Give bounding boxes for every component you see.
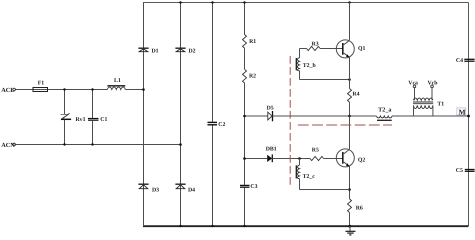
svg-text:DB1: DB1 (266, 146, 277, 152)
terminal Vcb (431, 85, 434, 88)
svg-text:D5: D5 (267, 106, 274, 112)
node junction top rail D2 (179, 1, 181, 3)
inductor T2_c winding (297, 165, 299, 179)
transistor Q1 (336, 40, 354, 58)
wire Q1 emitter down (349, 57, 351, 88)
wire T2_b to Q1 emitter (300, 79, 350, 81)
node label M highlight box (457, 108, 466, 115)
terminal ACN (13, 143, 16, 146)
inductor T2_a winding (377, 116, 393, 118)
wire R3 from T2_b top (300, 48, 307, 50)
transformer T1 secondary left lead (413, 105, 415, 116)
diode DB1 (267, 155, 272, 162)
svg-text:M: M (459, 107, 466, 116)
svg-text:R3: R3 (312, 41, 319, 47)
wire DB1 branch (245, 158, 268, 160)
svg-text:D4: D4 (188, 187, 195, 193)
inductor L1 core bar (107, 85, 125, 87)
capacitor C2 (208, 121, 218, 123)
capacitor C5 (465, 169, 475, 171)
wire R4 to mid rail (349, 102, 351, 116)
svg-text:L1: L1 (114, 78, 121, 84)
svg-text:ACN: ACN (1, 142, 15, 149)
resistor R2 (243, 69, 247, 83)
wire R6 to bottom rail (349, 213, 351, 227)
capacitor C1 (88, 118, 99, 120)
wire R1 R2 branch (244, 3, 246, 35)
node junction bottom rail C2 (211, 225, 213, 227)
node junction Q2 emitter / T2_c (348, 188, 351, 191)
transformer T1 core lines (413, 101, 433, 103)
wire DB1 to R5 (272, 158, 310, 160)
resistor R3 (307, 47, 321, 51)
resistor R4 (348, 89, 352, 103)
diode D5 (268, 112, 272, 120)
svg-text:C3: C3 (250, 184, 257, 190)
transformer core red dashed vertical (289, 56, 291, 186)
transformer T1 primary winding (413, 98, 433, 100)
wire R5 to Q2 base (324, 158, 343, 160)
node junction D5 branch (243, 115, 246, 118)
wire R2 down to C3 and bottom (244, 83, 246, 185)
svg-text:R2: R2 (249, 73, 256, 79)
wire C1 branch top (92, 90, 94, 119)
node junction ACL-C1 (91, 88, 93, 90)
wire C1 branch bottom (92, 121, 94, 145)
wire C2 branch (212, 3, 214, 122)
fuse F1 (33, 88, 48, 92)
wire T2_a to T1 (392, 115, 469, 117)
svg-text:T2_a: T2_a (378, 107, 391, 114)
diode D2 (175, 48, 185, 52)
svg-text:Q1: Q1 (358, 46, 366, 52)
svg-text:R1: R1 (249, 39, 256, 45)
wire Q2 collector (349, 116, 351, 149)
svg-text:T1: T1 (437, 101, 444, 107)
svg-text:R6: R6 (356, 205, 363, 211)
transformer core red dashed horizontal (298, 124, 392, 126)
wire L1 to bridge left leg (125, 89, 144, 91)
wire bridge left leg (143, 3, 145, 227)
node junction top rail C2 (211, 1, 213, 3)
diode D3 (138, 184, 148, 189)
transformer T1 secondary winding (413, 105, 433, 108)
wire T2_b top (299, 49, 301, 58)
svg-text:ACL: ACL (1, 87, 14, 94)
svg-text:Q2: Q2 (358, 157, 366, 163)
svg-text:D3: D3 (152, 187, 159, 193)
diode D4 (175, 184, 185, 189)
wire R3 to Q1 base (320, 48, 343, 50)
node junction top rail Q1 collector (348, 1, 350, 3)
wire varistor branch bottom (64, 120, 66, 145)
wire T2_b bottom (299, 71, 301, 80)
node junction ACN-Rv1 (63, 143, 65, 145)
svg-text:F1: F1 (38, 80, 45, 86)
node junction bridge left mid (142, 88, 145, 91)
resistor R5 (310, 157, 324, 161)
wire Q1 collector up (349, 3, 351, 41)
wire top rail (143, 2, 469, 4)
node junction top rail R1 (243, 1, 245, 3)
node junction bridge right mid (179, 143, 182, 146)
node junction mid rail Q2 collector (348, 115, 351, 118)
resistor R1 (243, 35, 247, 49)
svg-text:T2_c: T2_c (303, 174, 316, 180)
svg-text:D2: D2 (189, 49, 196, 55)
wire T2_c to Q2 emitter (300, 189, 350, 191)
node junction ACL-Rv1 (63, 88, 65, 90)
transformer T1 secondary right lead (432, 105, 434, 116)
wire ACL input line (15, 89, 107, 91)
svg-text:C5: C5 (456, 168, 463, 174)
wire D5 branch from R2 line (245, 115, 268, 117)
svg-text:Vca: Vca (408, 80, 418, 86)
wire D5 to T2_a (273, 115, 377, 117)
transformer T1 top lead Vca (414, 88, 416, 101)
wire bridge right leg (180, 3, 182, 227)
wire T2_c top (299, 159, 301, 166)
terminal Vca (413, 85, 416, 88)
T2_a core bar (377, 119, 392, 121)
wire T2_c bottom (299, 179, 301, 190)
node junction ACN-C1 (91, 143, 93, 145)
node junction bottom rail C3 (243, 225, 245, 227)
capacitor C3 (240, 184, 250, 186)
node junction DB1 branch (243, 157, 246, 160)
node junction bottom rail ground (348, 225, 351, 228)
node junction M wire to right rail (467, 115, 470, 118)
wire right rail (468, 3, 470, 227)
inductor L1 (107, 87, 125, 89)
svg-text:D1: D1 (152, 49, 159, 55)
node junction Q1 emitter / T2_b (348, 78, 351, 81)
svg-text:R5: R5 (312, 148, 319, 154)
svg-text:C4: C4 (456, 58, 463, 64)
svg-text:C2: C2 (218, 122, 225, 128)
node junction bottom rail D4 (179, 225, 181, 227)
T2_b core bar (295, 58, 297, 70)
svg-text:Vcb: Vcb (428, 79, 438, 86)
terminal ACL (13, 88, 16, 91)
transistor Q2 (336, 149, 354, 167)
svg-text:R4: R4 (352, 92, 359, 98)
varistor Rv1 (61, 114, 69, 116)
svg-text:Rv1: Rv1 (76, 117, 86, 123)
resistor R6 (348, 199, 352, 213)
diode D1 (138, 48, 148, 52)
svg-text:C1: C1 (100, 117, 107, 123)
wire bottom rail (143, 225, 469, 227)
T2_c core bar (295, 165, 297, 178)
wire Q2 emitter down (349, 166, 351, 199)
wire ACN input line (15, 144, 180, 146)
ground (346, 226, 356, 235)
capacitor C4 (464, 58, 474, 60)
transformer T1 top lead Vcb (431, 88, 433, 101)
svg-text:T2_b: T2_b (303, 62, 316, 69)
wire varistor branch top (64, 90, 66, 115)
wire between R1 R2 (244, 48, 246, 69)
inductor T2_b winding (297, 58, 299, 71)
node junction T2_c top (298, 157, 301, 160)
